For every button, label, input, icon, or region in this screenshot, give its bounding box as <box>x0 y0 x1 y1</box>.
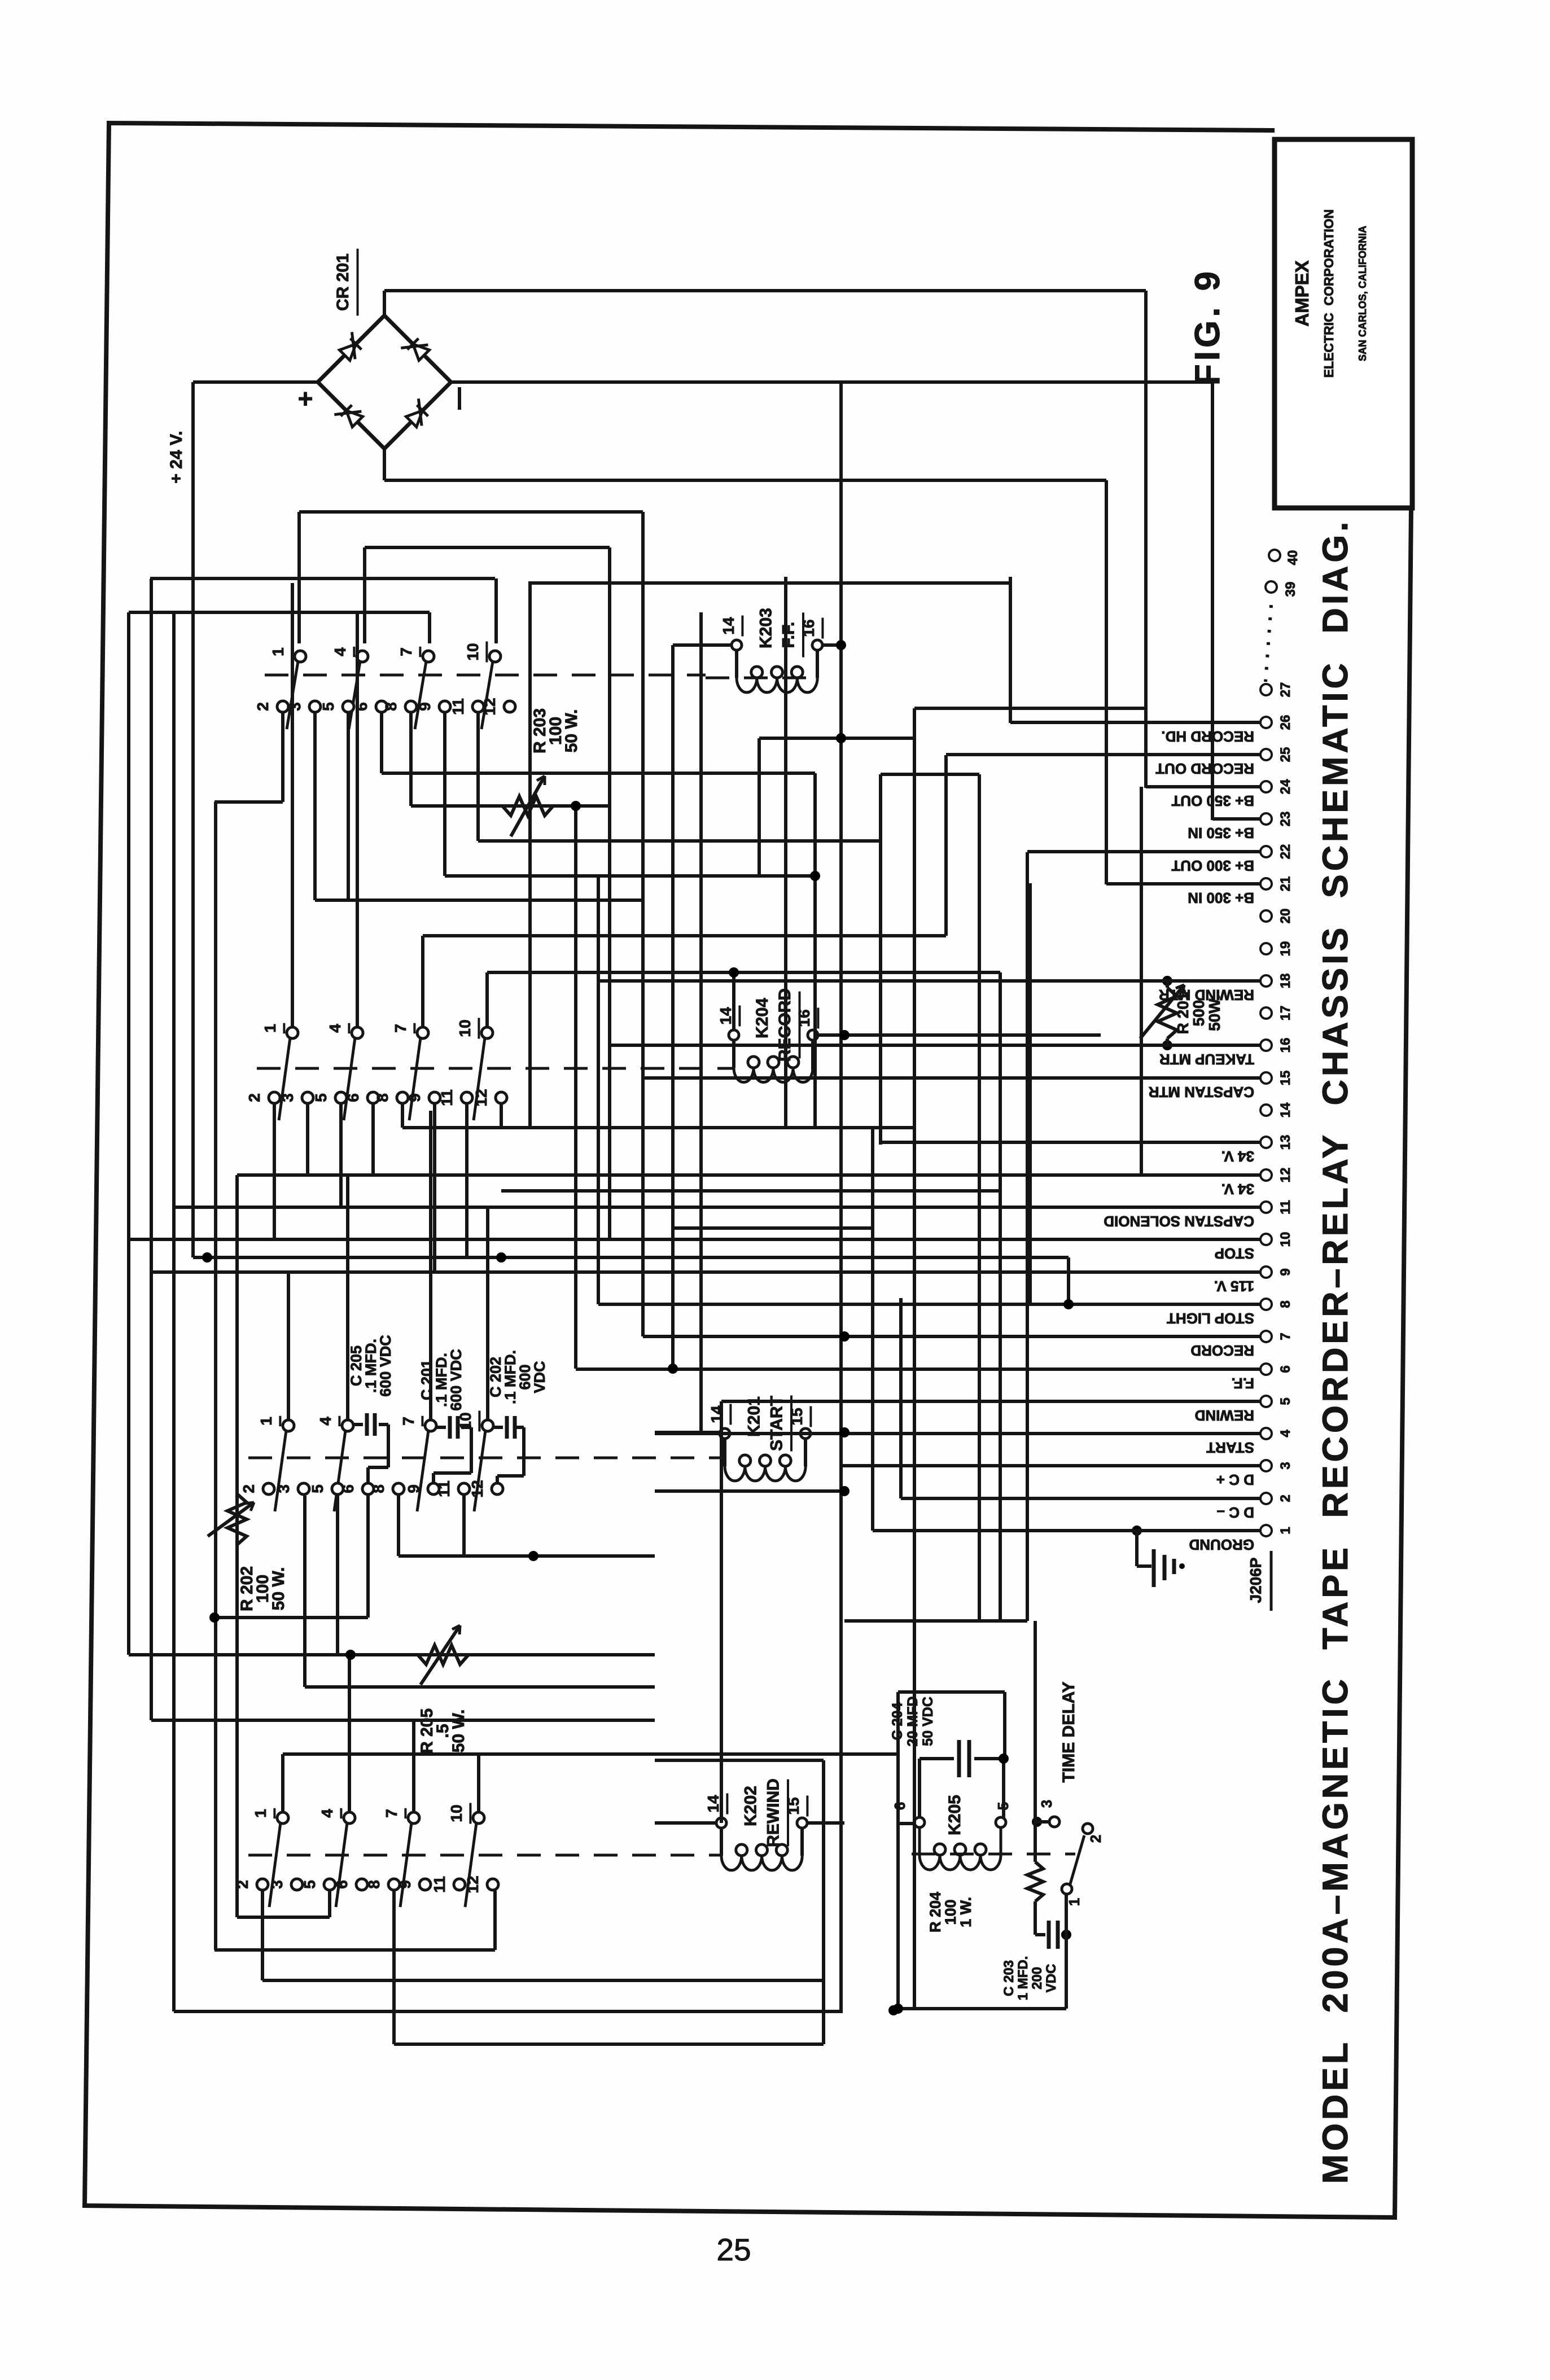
svg-text:MODEL 200A–MAGNETIC TAPE RE: MODEL 200A–MAGNETIC TAPE RECORDER–RELAY … <box>1316 519 1355 2184</box>
svg-text:RECORD HD.: RECORD HD. <box>1161 728 1254 745</box>
svg-text:D C –: D C – <box>1217 1504 1254 1521</box>
svg-text:7: 7 <box>392 1024 409 1033</box>
svg-text:11: 11 <box>435 1480 453 1497</box>
svg-text:2: 2 <box>1278 1494 1293 1502</box>
svg-text:+ 24 V.: + 24 V. <box>167 431 186 483</box>
svg-text:25: 25 <box>1278 747 1293 762</box>
svg-text:14: 14 <box>720 617 737 635</box>
svg-text:7: 7 <box>1278 1333 1293 1340</box>
svg-text:12: 12 <box>468 1480 486 1497</box>
svg-text:600 VDC: 600 VDC <box>448 1349 465 1411</box>
svg-text:8: 8 <box>382 702 400 711</box>
svg-text:8: 8 <box>1278 1300 1293 1308</box>
svg-text:1: 1 <box>1278 1527 1293 1534</box>
svg-text:11: 11 <box>1278 1200 1293 1214</box>
svg-text:K203: K203 <box>757 608 776 648</box>
svg-text:AMPEX: AMPEX <box>1291 260 1312 326</box>
svg-text:9: 9 <box>396 1880 414 1889</box>
svg-text:12: 12 <box>472 1089 490 1106</box>
svg-text:R 204: R 204 <box>927 1892 944 1932</box>
svg-text:R 201: R 201 <box>1174 992 1192 1035</box>
svg-text:+: + <box>298 384 313 413</box>
svg-text:22: 22 <box>1278 844 1293 860</box>
svg-text:50W.: 50W. <box>1206 995 1223 1031</box>
svg-text:C 204: C 204 <box>890 1703 905 1741</box>
svg-text:2: 2 <box>254 702 272 711</box>
svg-text:CAPSTAN SOLENOID: CAPSTAN SOLENOID <box>1104 1213 1254 1230</box>
svg-text:RECORD OUT: RECORD OUT <box>1155 760 1254 777</box>
svg-text:19: 19 <box>1278 941 1293 957</box>
svg-text:STOP: STOP <box>1215 1245 1254 1262</box>
svg-text:D C +: D C + <box>1216 1471 1254 1488</box>
svg-text:TAKEUP MTR: TAKEUP MTR <box>1159 1051 1254 1068</box>
svg-text:5: 5 <box>1278 1397 1293 1405</box>
svg-text:VDC: VDC <box>531 1361 548 1393</box>
svg-text:39: 39 <box>1283 582 1298 597</box>
svg-text:10: 10 <box>464 643 481 660</box>
svg-text:B+ 350 IN: B+ 350 IN <box>1188 825 1254 841</box>
svg-text:15: 15 <box>785 1797 802 1814</box>
svg-text:50 W.: 50 W. <box>269 1567 288 1611</box>
svg-text:REWIND: REWIND <box>1195 1407 1254 1424</box>
svg-text:5: 5 <box>309 1484 326 1493</box>
svg-text:K205: K205 <box>945 1795 964 1835</box>
svg-text:C 203: C 203 <box>1001 1960 1017 1996</box>
svg-text:3: 3 <box>275 1484 292 1493</box>
svg-text:40: 40 <box>1285 550 1301 566</box>
svg-text:5: 5 <box>319 702 337 711</box>
svg-text:START: START <box>1206 1439 1254 1456</box>
svg-text:9: 9 <box>1278 1268 1293 1276</box>
svg-text:REWIND: REWIND <box>764 1778 783 1847</box>
svg-text:16: 16 <box>795 1009 813 1027</box>
svg-text:200: 200 <box>1030 1967 1045 1989</box>
svg-text:9: 9 <box>416 702 434 711</box>
svg-text:5: 5 <box>312 1093 330 1102</box>
svg-text:1: 1 <box>252 1809 269 1818</box>
svg-text:ELECTRIC CORPORATION: ELECTRIC CORPORATION <box>1321 209 1336 378</box>
svg-text:FIG. 9: FIG. 9 <box>1188 268 1227 385</box>
svg-text:100: 100 <box>942 1899 959 1925</box>
svg-text:GROUND: GROUND <box>1189 1536 1254 1553</box>
svg-text:12: 12 <box>464 1875 481 1893</box>
svg-text:1 W.: 1 W. <box>957 1897 974 1927</box>
svg-text:20: 20 <box>1278 909 1293 924</box>
svg-text:11: 11 <box>438 1089 456 1106</box>
svg-text:24: 24 <box>1278 779 1293 794</box>
svg-text:600 VDC: 600 VDC <box>377 1335 394 1397</box>
svg-text:115 V.: 115 V. <box>1214 1278 1254 1295</box>
svg-text:7: 7 <box>400 1417 417 1426</box>
svg-text:18: 18 <box>1278 974 1293 989</box>
svg-text:B+ 300 IN: B+ 300 IN <box>1188 889 1254 906</box>
svg-text:6: 6 <box>339 1484 357 1493</box>
svg-text:F.F.: F.F. <box>780 622 798 648</box>
svg-text:9: 9 <box>405 1484 422 1493</box>
svg-text:3: 3 <box>1038 1800 1055 1808</box>
svg-text:26: 26 <box>1278 715 1293 730</box>
svg-text:6: 6 <box>1278 1365 1293 1373</box>
svg-text:13: 13 <box>1278 1135 1293 1150</box>
svg-text:16: 16 <box>1278 1038 1293 1053</box>
svg-text:17: 17 <box>1278 1006 1293 1021</box>
svg-text:SAN CARLOS, CALIFORNIA: SAN CARLOS, CALIFORNIA <box>1357 226 1368 361</box>
svg-text:3: 3 <box>268 1880 286 1889</box>
svg-text:2: 2 <box>240 1484 257 1493</box>
svg-text:34 V.: 34 V. <box>1221 1148 1254 1165</box>
svg-text:10: 10 <box>448 1804 465 1822</box>
svg-text:11: 11 <box>431 1876 448 1893</box>
svg-text:CAPSTAN MTR: CAPSTAN MTR <box>1148 1084 1254 1101</box>
svg-text:27: 27 <box>1278 682 1293 698</box>
svg-text:4: 4 <box>317 1417 334 1426</box>
svg-text:START: START <box>768 1396 786 1451</box>
svg-text:F.F.: F.F. <box>1232 1375 1254 1392</box>
svg-text:14: 14 <box>717 1007 734 1025</box>
svg-text:B+ 300 OUT: B+ 300 OUT <box>1171 857 1254 874</box>
svg-text:6: 6 <box>344 1093 362 1102</box>
svg-text:8: 8 <box>374 1093 391 1102</box>
svg-text:15: 15 <box>1278 1071 1293 1086</box>
svg-text:1: 1 <box>1066 1898 1083 1906</box>
svg-text:21: 21 <box>1278 876 1293 892</box>
svg-text:14: 14 <box>1278 1102 1293 1117</box>
svg-text:K204: K204 <box>753 998 772 1038</box>
svg-text:4: 4 <box>1278 1430 1293 1437</box>
svg-text:4: 4 <box>318 1809 336 1818</box>
svg-text:6: 6 <box>333 1880 351 1889</box>
svg-text:50 W.: 50 W. <box>449 1710 468 1753</box>
svg-text:15: 15 <box>788 1408 805 1425</box>
svg-text:4: 4 <box>326 1024 344 1033</box>
svg-text:7: 7 <box>383 1809 400 1818</box>
svg-text:K202: K202 <box>742 1786 760 1826</box>
svg-text:16: 16 <box>800 619 817 637</box>
svg-text:12: 12 <box>1278 1168 1293 1183</box>
svg-text:10: 10 <box>456 1019 474 1037</box>
svg-text:9: 9 <box>406 1093 423 1102</box>
svg-text:CR 201: CR 201 <box>334 253 352 311</box>
svg-text:50 W.: 50 W. <box>562 709 581 753</box>
svg-text:VDC: VDC <box>1044 1964 1059 1993</box>
svg-text:8: 8 <box>370 1484 387 1493</box>
svg-text:3: 3 <box>286 702 304 711</box>
svg-text:1 MFD.: 1 MFD. <box>1015 1956 1031 2001</box>
svg-text:23: 23 <box>1278 812 1293 827</box>
svg-text:25: 25 <box>716 2232 751 2267</box>
svg-text:STOP LIGHT: STOP LIGHT <box>1167 1310 1254 1327</box>
svg-text:14: 14 <box>704 1795 722 1813</box>
svg-text:6: 6 <box>353 702 370 711</box>
svg-text:7: 7 <box>397 647 415 656</box>
svg-text:2: 2 <box>1087 1835 1104 1843</box>
svg-text:2: 2 <box>246 1093 263 1102</box>
svg-text:3: 3 <box>279 1093 296 1102</box>
svg-text:4: 4 <box>331 647 349 656</box>
svg-text:10: 10 <box>1278 1232 1293 1247</box>
svg-text:TIME DELAY: TIME DELAY <box>1059 1682 1078 1783</box>
svg-text:RECORD: RECORD <box>1190 1342 1254 1359</box>
svg-text:500: 500 <box>1190 1000 1207 1027</box>
svg-text:8: 8 <box>365 1880 383 1889</box>
svg-text:12: 12 <box>481 698 498 715</box>
svg-text:11: 11 <box>449 698 467 715</box>
svg-text:1: 1 <box>257 1417 275 1426</box>
svg-text:1: 1 <box>269 647 287 656</box>
svg-text:3: 3 <box>1278 1462 1293 1469</box>
svg-text:50 VDC: 50 VDC <box>920 1697 936 1746</box>
svg-text:J206P: J206P <box>1247 1558 1264 1603</box>
svg-text:1: 1 <box>261 1024 279 1033</box>
svg-text:34 V.: 34 V. <box>1221 1181 1254 1198</box>
svg-text:5: 5 <box>301 1880 318 1889</box>
